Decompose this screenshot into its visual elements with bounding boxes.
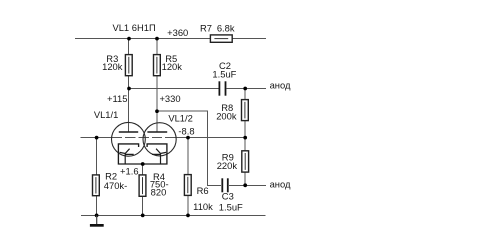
svg-text:R6: R6 (197, 185, 209, 196)
svg-text:110k: 110k (193, 201, 213, 212)
svg-text:200k: 200k (216, 111, 237, 122)
svg-text:220k: 220k (217, 160, 238, 171)
svg-text:6.8k: 6.8k (217, 22, 235, 33)
svg-text:470k-: 470k- (104, 180, 127, 191)
svg-text:120k: 120k (102, 61, 123, 72)
svg-text:анод: анод (270, 178, 291, 189)
svg-text:+360: +360 (167, 27, 188, 38)
svg-text:+115: +115 (107, 93, 127, 104)
svg-text:C3: C3 (222, 191, 234, 202)
svg-text:1.5uF: 1.5uF (219, 202, 243, 213)
svg-text:VL1/1: VL1/1 (94, 109, 119, 120)
svg-text:+330: +330 (159, 93, 180, 104)
svg-text:120k: 120k (162, 61, 183, 72)
svg-text:VL1/2: VL1/2 (168, 112, 193, 123)
svg-text:+1.6: +1.6 (120, 165, 139, 176)
svg-text:-8.8: -8.8 (178, 125, 194, 136)
svg-text:VL1 6Н1П: VL1 6Н1П (112, 22, 155, 33)
svg-text:анод: анод (270, 79, 291, 90)
svg-text:1.5uF: 1.5uF (212, 69, 236, 80)
svg-text:820: 820 (151, 187, 167, 198)
svg-text:R7: R7 (200, 22, 212, 33)
